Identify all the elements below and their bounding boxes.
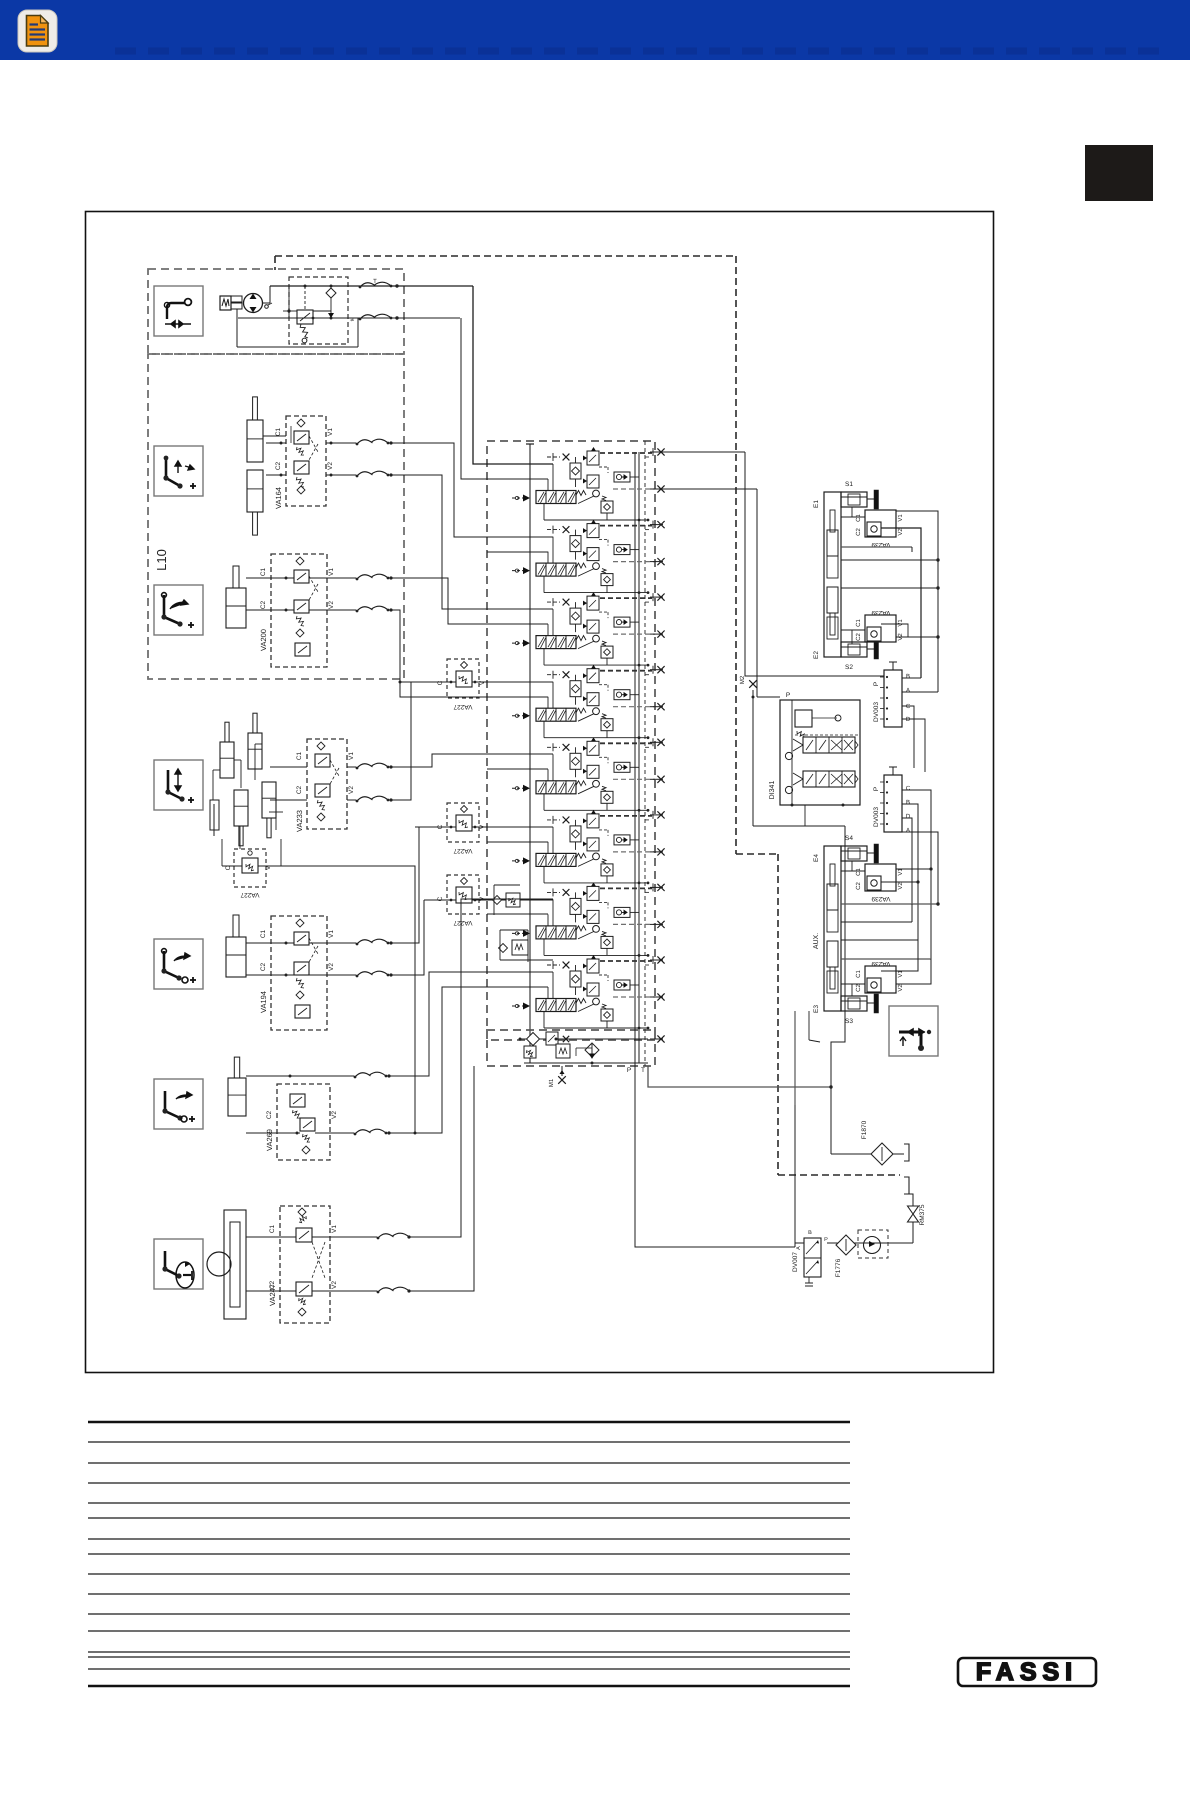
svg-text:V2: V2 — [897, 528, 904, 536]
svg-text:C1: C1 — [260, 929, 267, 938]
rotator actuator — [224, 1210, 246, 1319]
P line from bank bottom to filter — [648, 1066, 831, 1087]
svg-text:C2: C2 — [855, 528, 862, 536]
pump circle — [244, 294, 263, 313]
svg-text:S4: S4 — [845, 835, 853, 842]
svg-text:VA227: VA227 — [453, 847, 472, 854]
svg-text:M2: M2 — [739, 675, 746, 684]
header bar — [0, 0, 1190, 60]
T line from bank bottom to DV007 — [635, 1066, 795, 1247]
svg-text:B: B — [906, 799, 910, 806]
VA233 wires — [287, 766, 307, 768]
VA233 cluster connectors — [212, 770, 214, 800]
svg-text:DI341: DI341 — [769, 781, 776, 800]
valve bank section 7: spool valve, check valves, compensator — [512, 882, 665, 956]
svg-text:C1: C1 — [855, 514, 862, 522]
svg-text:C2: C2 — [269, 1280, 276, 1289]
P supply line — [529, 444, 531, 1063]
svg-text:AUX.: AUX. — [813, 933, 820, 949]
T lines — [634, 452, 636, 1066]
svg-text:VA164: VA164 — [274, 487, 283, 509]
VA200 cylinder — [226, 588, 246, 628]
VA269 cylinder — [228, 1078, 246, 1116]
main schematic frame — [86, 212, 994, 1373]
relief valve — [297, 310, 313, 324]
svg-text:D: D — [906, 813, 911, 820]
svg-text:V1: V1 — [331, 1225, 338, 1233]
svg-text:C1: C1 — [269, 1224, 276, 1233]
check valve — [326, 288, 336, 298]
valve bank section 1: spool valve, check valves, compensator — [512, 447, 665, 521]
svg-text:S1: S1 — [845, 481, 853, 488]
VA247 wires — [246, 1236, 296, 1238]
svg-text:F1870: F1870 — [861, 1120, 868, 1139]
VA200 group — [271, 554, 327, 667]
VA164 wires — [266, 442, 286, 444]
stabilizer cylinders E4/S4 E3/S3 AUX — [824, 846, 841, 1011]
svg-text:VA239: VA239 — [871, 960, 890, 967]
svg-text:C2: C2 — [266, 1110, 273, 1119]
svg-text:C2: C2 — [855, 984, 862, 992]
valve bank outer dashed box — [487, 441, 655, 1040]
pump group dashed box — [148, 269, 404, 354]
VA233 cylinders (4x) — [220, 742, 234, 778]
svg-text:A: A — [796, 1246, 802, 1250]
svg-text:V2: V2 — [327, 462, 334, 470]
svg-text:P: P — [873, 787, 880, 791]
svg-text:V1: V1 — [328, 930, 335, 938]
svg-text:C1: C1 — [296, 751, 303, 760]
svg-text:RM375: RM375 — [919, 1204, 926, 1225]
svg-text:C: C — [906, 703, 911, 710]
valve VA239 (S1) — [865, 510, 896, 537]
svg-text:C2: C2 — [855, 882, 862, 890]
svg-text:C2: C2 — [855, 633, 862, 641]
stabilizer cylinders E1/S1 E2/S2 — [824, 492, 841, 657]
svg-text:E1: E1 — [813, 500, 820, 508]
inlet section — [520, 1038, 648, 1040]
svg-text:V2: V2 — [328, 963, 335, 971]
svg-text:V1: V1 — [897, 514, 904, 522]
valve bank inlet dashed box — [487, 1030, 655, 1066]
svg-text:E3: E3 — [813, 1005, 820, 1013]
aux down wire — [794, 1011, 796, 1247]
DV003 block A — [884, 670, 902, 727]
svg-text:VA239: VA239 — [871, 895, 890, 902]
VA269 wires — [246, 1075, 354, 1077]
DV003 wires — [902, 677, 921, 679]
small aux valves near bank lower-left — [506, 893, 520, 907]
svg-text:P: P — [627, 1067, 631, 1074]
valve VA239 (S2) — [865, 615, 896, 642]
svg-text:V: V — [479, 680, 486, 685]
svg-text:M1: M1 — [548, 1078, 555, 1087]
svg-text:V2: V2 — [897, 984, 904, 992]
svg-text:T: T — [641, 1067, 645, 1074]
black box top right — [1085, 145, 1153, 201]
svg-text:B: B — [906, 673, 910, 680]
svg-text:A: A — [906, 827, 910, 834]
svg-text:VA227: VA227 — [240, 891, 259, 898]
svg-text:DV003: DV003 — [873, 702, 880, 722]
svg-text:S2: S2 — [845, 664, 853, 671]
motor M — [220, 296, 231, 310]
icon box: rotator — [154, 1239, 203, 1289]
pump wires — [263, 302, 271, 304]
valve bank section 6: spool valve, check valves, compensator — [512, 810, 665, 884]
svg-text:VA227: VA227 — [453, 919, 472, 926]
VA164 group — [286, 416, 326, 506]
svg-text:P: P — [786, 692, 790, 699]
svg-text:F1776: F1776 — [835, 1258, 842, 1277]
VA200 wires — [246, 577, 294, 579]
svg-text:C2: C2 — [296, 785, 303, 794]
svg-text:P: P — [824, 1237, 828, 1243]
svg-text:V2: V2 — [348, 786, 355, 794]
svg-text:V2: V2 — [331, 1111, 338, 1119]
valve VA239 (S4) — [865, 864, 896, 891]
valve bank section 3: spool valve, check valves, compensator — [512, 592, 665, 666]
svg-text:P: P — [873, 682, 880, 686]
svg-text:C2: C2 — [275, 461, 282, 470]
valve VA227 #2 — [447, 803, 479, 842]
svg-text:V1: V1 — [897, 619, 904, 627]
DV007 valve — [804, 1238, 821, 1277]
VA227 a — [234, 849, 266, 887]
svg-text:V1: V1 — [327, 428, 334, 436]
VA164 cylinders — [247, 420, 263, 462]
VA269 group — [277, 1084, 330, 1160]
VA194 wires — [246, 942, 294, 944]
top stab wiring — [841, 516, 865, 518]
VA194 cylinder — [226, 937, 246, 977]
svg-text:C: C — [437, 896, 444, 901]
icon box: stabilizers — [889, 1006, 938, 1056]
inner pump dashed box — [289, 277, 348, 344]
valve bank section 5: spool valve, check valves, compensator — [512, 737, 665, 811]
svg-text:DV003: DV003 — [873, 807, 880, 827]
document icon — [18, 10, 57, 52]
VA233 group — [307, 739, 347, 829]
L10 group dashed box — [148, 354, 404, 679]
svg-text:E4: E4 — [813, 854, 820, 862]
valve bank section 2: spool valve, check valves, compensator — [512, 520, 665, 594]
aux stab wiring — [841, 870, 865, 872]
valve bank section 4: spool valve, check valves, compensator — [512, 665, 665, 739]
svg-text:D: D — [906, 716, 911, 723]
svg-text:VA233: VA233 — [295, 810, 304, 832]
VA247 group — [280, 1206, 330, 1323]
svg-text:S3: S3 — [845, 1018, 853, 1025]
svg-text:V2: V2 — [328, 601, 335, 609]
valve bank section 8: spool valve, check valves, compensator — [512, 955, 665, 1029]
valve VA239 (S3) — [865, 966, 896, 993]
svg-text:B: B — [808, 1230, 812, 1236]
svg-text:L10: L10 — [154, 549, 169, 571]
RM375 valve — [907, 1194, 914, 1206]
icon box: extensions — [154, 760, 203, 810]
big dashed boundary — [275, 255, 736, 257]
hand pump + F1776 — [827, 1242, 913, 1244]
svg-text:C: C — [437, 680, 444, 685]
M2 test point — [749, 680, 757, 688]
svg-text:V2: V2 — [331, 1281, 338, 1289]
valve VA227 #1 — [447, 659, 479, 698]
svg-text:A: A — [906, 687, 910, 694]
svg-text:VA227: VA227 — [453, 703, 472, 710]
icon box: main boom — [154, 446, 203, 496]
bottom table lines — [88, 1421, 850, 1423]
svg-text:C: C — [906, 785, 911, 792]
wiring left-middle — [473, 286, 553, 464]
svg-text:C1: C1 — [855, 619, 862, 627]
svg-text:V1: V1 — [328, 568, 335, 576]
svg-text:VA239: VA239 — [871, 609, 890, 616]
svg-text:VA200: VA200 — [259, 629, 268, 651]
svg-text:VA194: VA194 — [259, 991, 268, 1013]
coupling — [231, 296, 242, 302]
svg-text:C2: C2 — [260, 600, 267, 609]
DI341 block — [780, 700, 860, 805]
svg-text:C1: C1 — [275, 427, 282, 436]
icon box: jib boom — [154, 939, 203, 989]
svg-text:VA269: VA269 — [265, 1129, 274, 1151]
svg-text:V1: V1 — [348, 752, 355, 760]
svg-text:C1: C1 — [260, 567, 267, 576]
icon box: winch — [154, 286, 203, 336]
valve VA227 #3 — [447, 875, 479, 914]
svg-text:FASSI: FASSI — [976, 1658, 1078, 1686]
svg-text:C1: C1 — [855, 868, 862, 876]
svg-text:V2: V2 — [897, 882, 904, 890]
svg-text:E2: E2 — [813, 651, 820, 659]
svg-text:DV007: DV007 — [792, 1252, 799, 1272]
icon box: second boom — [154, 585, 203, 635]
icon box: jib extension — [154, 1079, 203, 1129]
svg-text:C1: C1 — [855, 970, 862, 978]
svg-text:C2: C2 — [260, 962, 267, 971]
VA194 group — [271, 916, 327, 1030]
FASSI logo — [958, 1658, 1096, 1686]
